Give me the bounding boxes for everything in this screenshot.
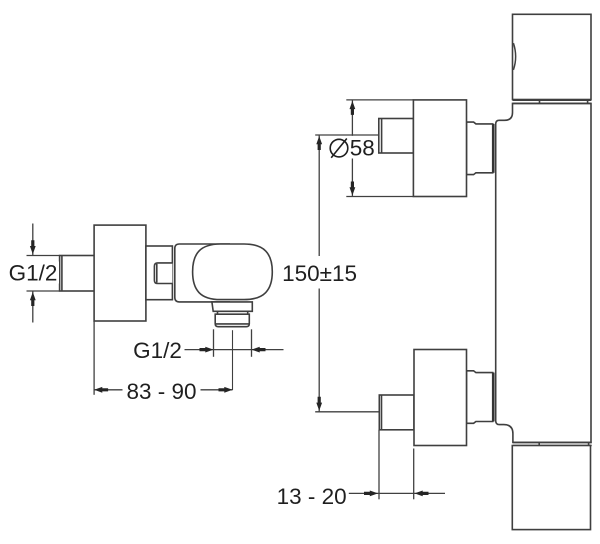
lower knob bbox=[414, 350, 467, 446]
upper supply cap bbox=[379, 119, 414, 154]
upper flange bold edge bbox=[492, 124, 494, 173]
arrow G1/2 inlet top (down) bbox=[30, 240, 36, 254]
svg-text:83 - 90: 83 - 90 bbox=[126, 379, 196, 404]
arrow 13-20 right (left-pointing) bbox=[415, 491, 429, 497]
lower cap inner edge line bbox=[381, 396, 383, 430]
rail body bbox=[496, 103, 591, 442]
shower outlet block (top) bbox=[513, 14, 592, 99]
mixing knob (side ellipse) bbox=[193, 244, 273, 300]
arrow 150 bottom (down) bbox=[316, 397, 322, 411]
inlet connector inner edge line bbox=[61, 256, 63, 292]
dim G1/2 inlet: extension lines bbox=[27, 255, 60, 257]
wall elbow block (bottom) bbox=[512, 446, 590, 530]
arrow diam58 bottom (down) bbox=[350, 182, 356, 196]
arrowheads bbox=[30, 101, 429, 496]
dim 150: leader lines bbox=[315, 134, 379, 136]
lower flange bold edge bbox=[492, 373, 494, 422]
svg-text:G1/2: G1/2 bbox=[9, 261, 58, 286]
label G1/2 inlet bbox=[7, 262, 59, 284]
safety button bbox=[154, 263, 172, 284]
dim G1/2 inlet: dimension line bottom bbox=[32, 291, 34, 323]
upper knob bbox=[413, 100, 466, 197]
dim 13-20: extension lines bbox=[378, 430, 380, 500]
label 150 plusminus 15 bbox=[281, 261, 358, 284]
dim 150: dimension line bbox=[318, 135, 320, 256]
rail bottom chamfer lines bbox=[513, 441, 592, 443]
lower supply cap bbox=[379, 395, 414, 430]
svg-text:13 - 20: 13 - 20 bbox=[277, 484, 347, 509]
svg-text:58: 58 bbox=[350, 136, 375, 161]
upper connector bbox=[467, 122, 493, 175]
dim G1/2 inlet: dimension line top bbox=[32, 224, 34, 256]
arrow 13-20 left (right-pointing) bbox=[364, 491, 378, 497]
dim G1/2 outlet: extension lines bbox=[213, 329, 215, 357]
rail top chamfer lines bbox=[513, 99, 592, 101]
inlet connector G1/2 (left view) bbox=[60, 256, 95, 292]
label 83 - 90 bbox=[124, 377, 199, 401]
arrow diam58 top (up) bbox=[350, 101, 356, 115]
valve body bbox=[175, 244, 230, 302]
svg-text:150±15: 150±15 bbox=[282, 261, 357, 286]
dim 83-90: dimension line bbox=[94, 389, 122, 391]
dim 13-20: dimension line bbox=[349, 492, 445, 494]
valve mid section bbox=[146, 246, 173, 300]
lower connector bbox=[467, 371, 493, 424]
dim 83-90: extension line bbox=[93, 321, 95, 395]
diameter symbol slash bbox=[331, 139, 347, 158]
outlet block arc detail bbox=[513, 43, 515, 70]
arrow 83-90 right (right-pointing) bbox=[219, 387, 233, 393]
diameter symbol circle bbox=[330, 139, 348, 157]
outlet flange bbox=[212, 302, 252, 311]
handle knob (left view) bbox=[94, 225, 146, 321]
dim G1/2 outlet: dimension line bbox=[185, 349, 284, 351]
label diam58 bbox=[326, 136, 377, 158]
dim diam58: dimension line bbox=[351, 100, 353, 136]
safety button inner edge line bbox=[156, 264, 158, 283]
dim diam58: extension lines bbox=[346, 99, 413, 101]
arrow 83-90 left (left-pointing) bbox=[94, 387, 108, 393]
outlet nut bbox=[215, 314, 249, 327]
upper cap inner edge line bbox=[381, 119, 383, 153]
arrow G1/2 inlet bottom (up) bbox=[30, 292, 36, 306]
arrow G1/2 outlet right (left-pointing) bbox=[252, 347, 266, 353]
arrow 150 top (up) bbox=[316, 136, 322, 150]
outlet center line bbox=[232, 330, 234, 390]
arrow G1/2 outlet left (right-pointing) bbox=[200, 347, 214, 353]
nut band line bbox=[215, 323, 249, 325]
svg-text:G1/2: G1/2 bbox=[133, 338, 182, 363]
outlet neck lines bbox=[217, 311, 219, 314]
